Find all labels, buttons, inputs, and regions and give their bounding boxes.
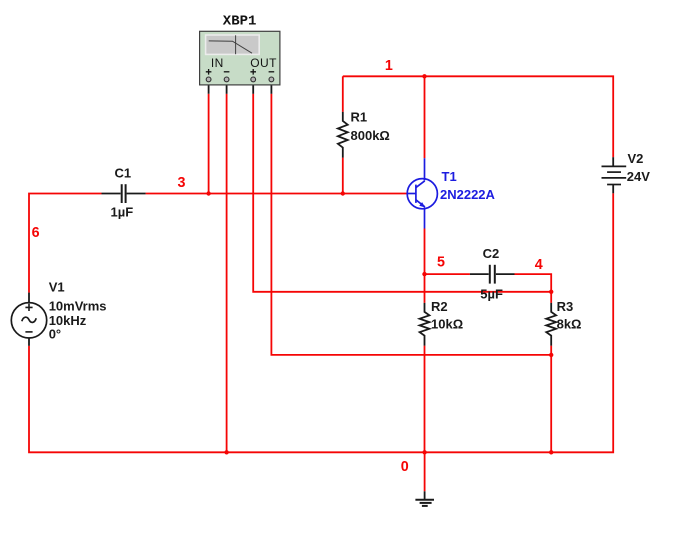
svg-text:C1: C1 (115, 166, 132, 181)
svg-text:2N2222A: 2N2222A (440, 187, 496, 202)
svg-text:8kΩ: 8kΩ (557, 317, 582, 332)
svg-text:0: 0 (401, 459, 409, 475)
svg-text:V1: V1 (49, 280, 65, 295)
svg-text:5: 5 (437, 254, 445, 270)
svg-text:6: 6 (32, 225, 40, 241)
svg-text:1µF: 1µF (111, 205, 134, 220)
svg-text:3: 3 (178, 175, 186, 191)
svg-text:T1: T1 (442, 169, 457, 184)
svg-text:10mVrms: 10mVrms (49, 299, 107, 314)
svg-text:4: 4 (535, 257, 543, 273)
svg-text:0°: 0° (49, 327, 61, 342)
svg-text:R3: R3 (557, 299, 574, 314)
svg-text:XBP1: XBP1 (223, 13, 257, 29)
svg-text:OUT: OUT (250, 56, 277, 70)
svg-text:C2: C2 (483, 246, 500, 261)
svg-text:R2: R2 (431, 299, 448, 314)
svg-text:5µF: 5µF (480, 286, 503, 301)
svg-text:R1: R1 (351, 109, 368, 124)
svg-text:24V: 24V (627, 169, 650, 184)
svg-text:1: 1 (385, 58, 393, 74)
svg-text:10kΩ: 10kΩ (431, 317, 463, 332)
svg-text:V2: V2 (628, 151, 644, 166)
svg-text:IN: IN (211, 56, 224, 70)
svg-text:800kΩ: 800kΩ (351, 128, 390, 143)
